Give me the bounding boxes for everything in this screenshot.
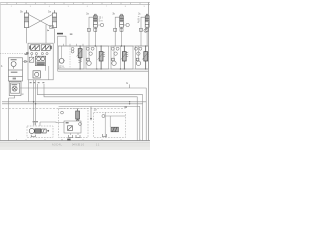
return line R2	[37, 84, 142, 141]
port label box	[50, 25, 53, 28]
feed arrow into unit 10	[90, 107, 92, 119]
valve station 4a box	[59, 46, 85, 69]
filter 9a	[76, 109, 80, 121]
directional valve 2a	[31, 45, 40, 51]
side valve	[29, 57, 34, 62]
gauge 3c	[144, 29, 147, 32]
bus P line	[58, 45, 149, 47]
manifold drop B	[33, 80, 35, 126]
gauge pair 4a	[71, 47, 74, 53]
relief valve 4b	[99, 46, 103, 69]
frame stamp mark	[67, 139, 70, 141]
cylinder 5a (right)	[52, 10, 56, 27]
svg-text:G: G	[126, 81, 128, 85]
relief valve 4a	[78, 46, 82, 69]
station 4c pumplet	[112, 58, 116, 65]
system line S2	[2, 103, 143, 105]
junction dots	[33, 45, 146, 104]
tank 9c	[69, 135, 73, 138]
pump 10c	[111, 127, 118, 132]
check valve block	[35, 56, 45, 65]
pump 4a arrow	[63, 60, 65, 61]
control cabinet 1a	[8, 58, 22, 81]
svg-text:04 9 35 1 0: 04 9 35 1 0	[72, 144, 85, 147]
return line R3	[44, 84, 137, 141]
svg-text:5 m: 5 m	[99, 20, 103, 23]
accumulator station 3b bracket	[115, 17, 119, 30]
gauge 3b stem	[124, 24, 126, 26]
manifold block 2	[28, 43, 53, 80]
wire 3b bracket down	[114, 30, 116, 46]
tank 8	[31, 135, 35, 137]
frame left border	[0, 2, 2, 140]
boundary end mark	[26, 52, 28, 54]
cooler unit 9 enclosure	[59, 109, 88, 138]
wire 3a down	[94, 27, 96, 46]
frame column numbers	[11, 6, 146, 8]
label 10r	[124, 106, 127, 108]
wire 4b mid	[96, 46, 98, 69]
relief valve 4c spring	[121, 52, 129, 60]
station 4a divider	[69, 46, 71, 69]
station 4d pumplet	[136, 58, 140, 65]
relief valve 4d	[144, 46, 148, 69]
accumulator fittings	[87, 28, 148, 31]
wire 10 main	[105, 112, 125, 137]
accumulator station 3c bracket	[141, 17, 145, 30]
unit 1b label	[12, 84, 18, 85]
cylinder 5b (left)	[24, 10, 28, 27]
bracket mount	[58, 36, 66, 46]
footer text row	[52, 144, 100, 147]
svg-text:4 MPa: 4 MPa	[137, 16, 140, 24]
power unit 8 enclosure	[27, 126, 53, 137]
frame bottom border	[0, 140, 150, 142]
wire 4a drop	[61, 46, 63, 58]
svg-text:A 3 C 4 L: A 3 C 4 L	[52, 144, 63, 147]
leak line dashed	[2, 108, 126, 110]
solenoid 2a	[29, 46, 31, 49]
svg-text:123 L: 123 L	[59, 66, 66, 69]
gauge 3b	[126, 23, 129, 26]
crossed hose lines	[29, 15, 53, 28]
unit 10 enclosure	[94, 112, 126, 137]
wire 3a bracket down	[88, 30, 90, 46]
manifold internal wires	[32, 55, 49, 80]
bus P stubs	[64, 44, 84, 46]
accumulator 3a	[93, 14, 97, 27]
manifold drop C	[35, 80, 37, 126]
valve station 4c	[111, 47, 119, 55]
pump 8 port dot	[47, 130, 49, 132]
valve station 4c box	[111, 46, 133, 69]
wire cylinder 5a to manifold	[54, 29, 56, 44]
valve 9b	[68, 126, 73, 131]
wire 3b down	[121, 27, 123, 46]
bus T line lower	[58, 70, 149, 72]
relief valve 4c	[122, 46, 126, 69]
manifold port labels	[30, 82, 45, 83]
power unit 8 label	[33, 121, 38, 122]
relief valve 4b spring	[98, 52, 106, 60]
drawing frame top border	[0, 3, 150, 5]
wire cylinder 5b to manifold	[26, 28, 28, 44]
gauge 3a stem	[98, 24, 100, 26]
relief valve 4d spring	[142, 52, 148, 60]
filter unit 1b	[9, 82, 21, 96]
cooler fan circle	[61, 111, 64, 114]
frame column ticks	[7, 3, 140, 5]
motor pump 8	[29, 128, 46, 133]
bus T line upper	[58, 68, 149, 70]
directional valve 2b	[41, 45, 50, 51]
label 9M	[66, 122, 69, 124]
label G	[129, 84, 131, 88]
svg-text:10: 10	[94, 108, 98, 112]
tank 9d	[76, 135, 80, 138]
frame right border	[147, 2, 149, 140]
wire 9 inlet	[59, 122, 64, 124]
tank 10d	[102, 134, 106, 137]
gauge 9b	[79, 123, 82, 126]
accumulator station 3a bracket	[89, 17, 93, 30]
pipe to cooler	[40, 121, 59, 124]
subplate 9 box	[64, 121, 81, 133]
valve station 4d box	[136, 46, 149, 69]
gauge 3c stem	[146, 27, 148, 29]
solenoid 2b	[50, 46, 52, 49]
cabinet 1a labels	[11, 59, 18, 79]
relief valve 4a spring	[77, 49, 83, 63]
label 25l	[99, 17, 103, 23]
valve station 4d	[135, 47, 142, 55]
wire 9 drops	[71, 121, 79, 135]
hose arrow tick	[47, 29, 49, 31]
manifold drop A	[28, 80, 30, 102]
valve station 4b box	[86, 46, 109, 69]
footer strip	[0, 142, 150, 150]
accumulator 3b	[120, 14, 124, 27]
wire 3c bracket down	[140, 30, 142, 46]
boundary dotted line	[0, 53, 26, 55]
coupling 1a	[24, 60, 26, 62]
wire cylinder 5a drop	[45, 25, 47, 44]
bottom frame ticks	[17, 139, 141, 141]
system line S3	[59, 106, 140, 140]
frame bottom tick	[61, 139, 63, 141]
label mid	[70, 33, 73, 35]
shutoff valve 2c	[33, 71, 40, 78]
accumulator 3c	[145, 14, 149, 27]
drain line left	[8, 98, 10, 141]
wire 4c mid	[119, 46, 121, 69]
circulation pump 4a	[59, 58, 64, 63]
valve station 4b	[86, 47, 94, 55]
wire 3c down	[146, 27, 148, 46]
label above 1a	[25, 54, 28, 55]
bus T left drop	[57, 46, 59, 71]
return line R1	[20, 88, 146, 141]
station 4b pumplet	[87, 58, 91, 65]
gauge 3a	[100, 23, 103, 26]
system line S1	[2, 101, 146, 103]
gauge 10a	[102, 115, 105, 118]
wire 1a to manifold	[23, 61, 29, 63]
pilot ports row	[31, 53, 48, 55]
label StB	[57, 33, 63, 35]
wire 1b out	[9, 96, 15, 99]
